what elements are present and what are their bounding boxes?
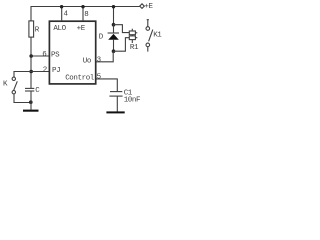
switch K1 [146,20,162,52]
wire pin6 PS [31,55,49,57]
svg-text:3: 3 [97,56,102,64]
svg-text:+E: +E [77,25,86,33]
terminal +E [140,3,154,11]
diode D [99,25,119,52]
wire pin5 Control [97,79,118,92]
wire pin4 [60,5,63,21]
label ALO pin4 [53,11,68,34]
svg-text:R: R [35,26,40,34]
wire pin3 Uo [97,51,114,62]
svg-text:K1: K1 [153,32,162,40]
svg-text:10nF: 10nF [124,97,140,105]
svg-text:Uo: Uo [83,57,92,65]
svg-text:D: D [99,34,104,42]
relay coil R1 [129,29,139,53]
capacitor C1 [109,90,140,105]
svg-text:R1: R1 [130,44,139,52]
svg-text:K: K [3,81,8,89]
resistor R [29,21,40,37]
node junction PS [29,54,33,58]
wire top rail [31,7,140,22]
svg-text:5: 5 [97,73,102,81]
svg-text:Control: Control [65,75,95,83]
wire +E branch drop [112,5,115,25]
svg-text:PS: PS [51,51,60,59]
label Uo pin3 [83,56,102,65]
node junction diode bottom [112,49,116,53]
svg-text:C: C [35,87,40,95]
label Control pin5 [65,73,101,82]
ground right [106,111,124,113]
svg-text:4: 4 [64,11,69,19]
node junction diode top [112,23,116,27]
wire cap C to ground [30,91,32,110]
wire pin2 PJ to K [14,72,49,78]
wire cap C1 to ground [116,96,118,111]
wire relay top lead [114,25,130,33]
IC U1 Control box [49,21,95,84]
node junction ground left [29,100,33,104]
label +E pin8 [77,11,89,33]
ground left [23,110,39,112]
svg-text:2: 2 [43,67,48,75]
svg-text:6: 6 [42,51,47,59]
switch K [3,77,17,94]
svg-text:8: 8 [84,11,89,19]
label PJ pin2 [43,67,61,75]
node junction PJ [29,70,33,74]
wire pin8 [81,5,84,21]
svg-text:ALO: ALO [53,25,66,33]
wire left vertical to cap C [30,37,32,88]
svg-text:+E: +E [144,3,153,11]
capacitor C [25,87,40,95]
label PS pin6 [42,51,60,59]
wire K bottom [14,94,31,103]
wire relay bottom lead [114,38,130,52]
svg-text:PJ: PJ [52,67,60,75]
